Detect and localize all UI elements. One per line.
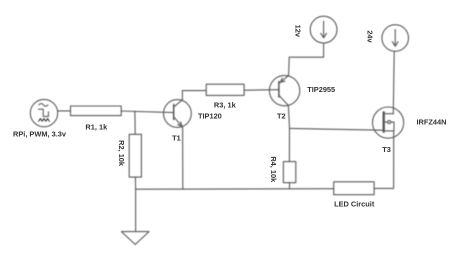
svg-text:RPi, PWM, 3.3v: RPi, PWM, 3.3v bbox=[13, 129, 67, 138]
svg-text:T2: T2 bbox=[277, 112, 286, 121]
wire LED circuit to T3 source bbox=[374, 131, 394, 188]
resistor R2 bbox=[129, 134, 141, 177]
transistor T2 bbox=[269, 75, 299, 105]
supply 12v bbox=[310, 16, 337, 43]
svg-text:IRFZ44N: IRFZ44N bbox=[417, 118, 447, 127]
transistor T1 bbox=[164, 100, 192, 128]
wire T1 emitter to bottom rail bbox=[182, 127, 184, 189]
svg-text:R2, 10k: R2, 10k bbox=[117, 140, 126, 167]
resistor R1 bbox=[71, 106, 122, 116]
svg-text:T1: T1 bbox=[172, 134, 181, 143]
wire R3 to T2 base bbox=[244, 89, 279, 92]
wire T1 collector riser bbox=[181, 91, 183, 100]
svg-text:24v: 24v bbox=[366, 30, 375, 43]
wire junction to R2 top bbox=[134, 111, 136, 134]
svg-text:TIP2955: TIP2955 bbox=[307, 85, 335, 94]
wire 12v to T2 emitter bbox=[289, 43, 324, 76]
LED circuit block bbox=[334, 182, 374, 195]
wire T2 collector to gate node bbox=[288, 106, 289, 129]
resistor R3 bbox=[206, 84, 244, 95]
wire gate node to R4 bbox=[288, 128, 290, 161]
svg-text:R4, 10k: R4, 10k bbox=[269, 156, 278, 183]
wire collector to R3 bbox=[182, 90, 206, 92]
wire R2 bottom to ground node bbox=[134, 177, 136, 189]
ground bbox=[121, 232, 149, 245]
wire source to R1 bbox=[58, 110, 71, 112]
svg-text:TIP120: TIP120 bbox=[198, 112, 222, 121]
wire T3 drain to 24v bbox=[392, 51, 395, 113]
svg-text:R1, 1k: R1, 1k bbox=[85, 122, 108, 131]
svg-text:12v: 12v bbox=[293, 25, 302, 38]
wire ground drop bbox=[135, 189, 137, 231]
resistor R4 bbox=[283, 162, 295, 183]
supply 24v bbox=[382, 25, 409, 52]
svg-text:R3, 1k: R3, 1k bbox=[214, 100, 237, 109]
svg-text:T3: T3 bbox=[382, 145, 391, 154]
signal source V1 (RPi PWM) bbox=[30, 99, 57, 126]
wire R4 to bottom rail bbox=[289, 183, 291, 189]
svg-text:LED Circuit: LED Circuit bbox=[334, 200, 375, 209]
wire gate node to T3 gate bbox=[290, 128, 383, 130]
wire R1 to T1 base (junction at R2 tap) bbox=[121, 111, 174, 113]
mosfet T3 bbox=[373, 107, 404, 138]
bottom wire (ground rail to LED circuit) bbox=[136, 188, 334, 191]
